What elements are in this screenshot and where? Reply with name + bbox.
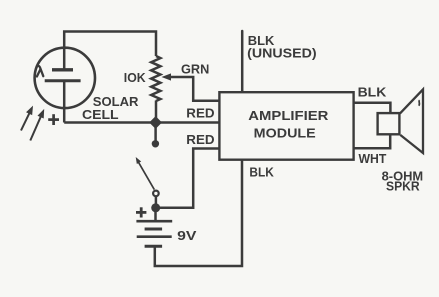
svg-text:BLK: BLK (249, 165, 274, 180)
svg-text:BLK: BLK (358, 85, 387, 100)
svg-text:RED: RED (186, 132, 215, 147)
potentiometer wiper arrow (162, 73, 172, 80)
battery B1 plate long 1 (136, 220, 172, 223)
node switch top terminal dot (152, 140, 159, 147)
wire BLK right (module to speaker top) (354, 103, 391, 114)
battery B1 9V plus sign (136, 207, 146, 217)
battery B1 plate short 2 (145, 245, 163, 248)
svg-text:MODULE: MODULE (254, 126, 316, 141)
wire pot bottom lead (155, 101, 158, 123)
wire WHT right (module to speaker bottom) (354, 134, 391, 148)
solar cell lambda symbol (37, 66, 43, 77)
solar cell plate long (45, 79, 81, 82)
potentiometer R1 10K body (151, 56, 160, 101)
speaker LS1 cone (400, 89, 423, 153)
wire BLK bottom (module to battery minus) (155, 159, 242, 266)
svg-text:WHT: WHT (359, 151, 387, 166)
speaker cone small mark (418, 100, 421, 106)
wire BLK top (unused) (241, 31, 244, 92)
svg-text:(UNUSED): (UNUSED) (247, 46, 317, 61)
wire battery plus lead (154, 208, 157, 220)
wire GRN (pot wiper to module) (166, 77, 219, 101)
battery B1 plate long 2 (137, 235, 172, 238)
solar cell PC1 circle (35, 48, 95, 108)
svg-text:CELL: CELL (82, 107, 119, 122)
svg-text:9V: 9V (177, 228, 196, 243)
wire switch to battery plus dot (155, 196, 158, 206)
svg-text:SPKR: SPKR (386, 179, 420, 194)
amplifier module U1 box (219, 92, 353, 160)
wire solar cell bottom lead (63, 81, 66, 123)
wire stub junction to switch (154, 123, 157, 142)
svg-text:IOK: IOK (124, 70, 146, 85)
svg-text:AMPLIFIER: AMPLIFIER (248, 108, 329, 123)
svg-text:RED: RED (186, 106, 215, 121)
switch S1 lever (134, 156, 155, 190)
battery B1 plate short 1 (145, 228, 163, 231)
wire RED (solar cell to amplifier module) (64, 121, 219, 124)
speaker LS1 driver box (378, 113, 400, 134)
light arrow 1 (21, 104, 36, 130)
svg-text:GRN: GRN (181, 61, 209, 76)
node battery plus junction dot (151, 203, 160, 212)
solar cell plate short (52, 68, 73, 71)
switch S1 bottom contact circle (153, 191, 159, 197)
wire top (solar cell top to pot top) (64, 32, 156, 69)
solar cell plus sign (48, 114, 59, 125)
light arrow 2 (30, 108, 47, 141)
wire RED 2 (battery plus to module) (158, 149, 219, 208)
node junction diamond (pot/cell/switch) (150, 117, 161, 128)
